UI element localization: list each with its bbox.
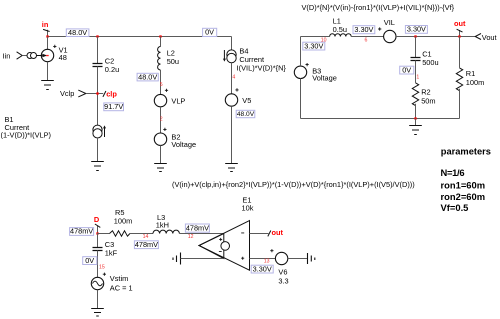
wire C2 to clp to B1 bbox=[97, 67, 99, 126]
svg-text:Vf=0.5: Vf=0.5 bbox=[441, 202, 469, 213]
svg-text:500u: 500u bbox=[422, 58, 438, 67]
voltage label box 3.30V (left of VIL) bbox=[353, 25, 375, 34]
voltage source VIL bbox=[378, 18, 396, 43]
svg-text:10k: 10k bbox=[242, 203, 254, 212]
voltage source V6 bbox=[270, 249, 288, 286]
svg-text:I(VIL)*V(D)*{N}: I(VIL)*V(D)*{N} bbox=[237, 63, 287, 72]
svg-text:3.30V: 3.30V bbox=[304, 41, 323, 50]
svg-text:100m: 100m bbox=[466, 78, 485, 87]
wire L2 top bbox=[160, 37, 162, 47]
wire ground stub bbox=[415, 119, 417, 126]
inductor L3 bbox=[153, 213, 179, 233]
junction L2 top bbox=[159, 35, 161, 37]
wire bottom rail right circuit bbox=[301, 118, 460, 120]
svg-text:3.30V: 3.30V bbox=[354, 25, 373, 34]
op-amp E1 (VCVS) bbox=[199, 196, 254, 271]
ground under rail bbox=[409, 126, 422, 135]
svg-text:0V: 0V bbox=[402, 65, 411, 74]
svg-text:50m: 50m bbox=[421, 97, 435, 106]
current source B1 bbox=[1, 115, 107, 140]
wire C2 top bbox=[97, 37, 99, 64]
svg-text:48.0V: 48.0V bbox=[138, 72, 157, 81]
wire in stub bbox=[47, 30, 49, 37]
voltage label box 478mV (E1 in) bbox=[185, 223, 209, 232]
wire B3 top segment bbox=[301, 36, 330, 38]
wire R5 to L3 bbox=[130, 233, 153, 235]
node D bbox=[94, 215, 100, 234]
svg-text:0.5u: 0.5u bbox=[333, 25, 347, 34]
voltage label box 3.30V (E1) bbox=[251, 264, 273, 273]
voltage source VLP bbox=[154, 89, 185, 107]
svg-text:4: 4 bbox=[232, 75, 235, 81]
svg-text:V5: V5 bbox=[242, 96, 251, 105]
capacitor C2 bbox=[93, 57, 120, 74]
svg-text:V6: V6 bbox=[278, 268, 287, 277]
wire D to R5 bbox=[98, 233, 110, 235]
svg-text:VIL: VIL bbox=[384, 18, 395, 27]
svg-text:91.7V: 91.7V bbox=[104, 102, 123, 111]
svg-text:Vclp: Vclp bbox=[60, 89, 74, 98]
svg-text:1kF: 1kF bbox=[105, 249, 118, 258]
resistor R2 bbox=[412, 83, 435, 106]
voltage label box 91.7V bbox=[104, 102, 124, 111]
svg-text:R1: R1 bbox=[466, 69, 475, 78]
junction rail-ground bbox=[414, 117, 416, 119]
wire B3 left side bbox=[300, 37, 302, 67]
svg-text:478mV: 478mV bbox=[70, 227, 93, 236]
svg-text:AC = 1: AC = 1 bbox=[110, 284, 133, 293]
svg-text:Voltage: Voltage bbox=[312, 74, 337, 83]
resistor R5 bbox=[110, 208, 133, 236]
wire V1 top bbox=[47, 37, 49, 50]
wire B1 to ground bbox=[97, 138, 99, 162]
svg-text:Voltage: Voltage bbox=[171, 140, 196, 149]
svg-text:12: 12 bbox=[188, 234, 194, 240]
voltage label box 0V (C3) bbox=[83, 256, 97, 265]
svg-text:parameters: parameters bbox=[441, 147, 491, 157]
voltage label box 3.30V (right of VIL) bbox=[405, 25, 427, 34]
svg-text:1: 1 bbox=[416, 75, 419, 81]
wire L1 to VIL bbox=[351, 36, 383, 38]
svg-text:Iin: Iin bbox=[3, 52, 11, 61]
wire C3 to Vstim bbox=[97, 251, 99, 278]
probe Vclp bbox=[60, 89, 98, 98]
svg-text:5: 5 bbox=[160, 82, 163, 88]
svg-text:out: out bbox=[454, 19, 466, 28]
svg-text:(V(in)+V(clp,in)+{ron2}*I(VLP): (V(in)+V(clp,in)+{ron2}*I(VLP))*(1-V(D))… bbox=[172, 180, 415, 189]
voltage label box 48.0V (L2) bbox=[137, 72, 158, 81]
svg-text:N=1/6: N=1/6 bbox=[441, 167, 465, 178]
wire B4 to V5 bbox=[231, 63, 233, 94]
voltage label box 3.30V (B3 corner) bbox=[303, 41, 325, 50]
svg-text:3.30V: 3.30V bbox=[407, 25, 426, 34]
svg-text:3.3: 3.3 bbox=[278, 277, 288, 286]
wire E1 plus out to V6 bbox=[250, 258, 276, 260]
ground under Vstim bbox=[91, 309, 104, 317]
wire B4 drop bbox=[231, 37, 233, 50]
junction clp bbox=[96, 92, 98, 94]
svg-text:Vout: Vout bbox=[482, 33, 497, 42]
capacitor C3 bbox=[93, 240, 118, 258]
wire D to C3 bbox=[97, 234, 99, 248]
wire C1 to R2 bbox=[415, 61, 417, 83]
wire C1 drop bbox=[415, 37, 417, 58]
voltage source B2 bbox=[154, 128, 196, 149]
voltage source B3 bbox=[294, 63, 337, 83]
wire Vstim to ground bbox=[97, 290, 99, 309]
wire L3 to E1 bbox=[179, 233, 223, 235]
probe Vout bbox=[475, 33, 496, 42]
ground under V5 bbox=[225, 164, 238, 172]
junction C2 top bbox=[96, 35, 98, 37]
inductor L1 bbox=[330, 17, 352, 37]
node out (top) bbox=[454, 19, 466, 37]
svg-text:VLP: VLP bbox=[171, 96, 185, 105]
svg-text:clp: clp bbox=[106, 89, 117, 98]
wire R1 top bbox=[459, 37, 461, 68]
wire E1 out bbox=[250, 233, 269, 235]
svg-text:Vstim: Vstim bbox=[110, 274, 128, 283]
svg-text:2: 2 bbox=[160, 117, 163, 123]
svg-text:0V: 0V bbox=[205, 28, 214, 37]
voltage label box 48.0V (in rail) bbox=[66, 28, 89, 37]
svg-text:6: 6 bbox=[365, 37, 368, 43]
voltage label box 48.0V (V5) bbox=[236, 110, 255, 118]
voltage source V1 bbox=[41, 45, 67, 62]
svg-text:50u: 50u bbox=[167, 57, 179, 66]
svg-text:ron1=60m: ron1=60m bbox=[441, 179, 486, 190]
svg-text:(1-V(D))*I(VLP): (1-V(D))*I(VLP) bbox=[1, 131, 52, 140]
ground under B1 bbox=[91, 162, 104, 171]
wire R2 to rail bbox=[415, 104, 417, 119]
svg-text:in: in bbox=[42, 20, 49, 29]
parameters text block bbox=[441, 147, 491, 214]
voltage label box 0V (top rail right) bbox=[203, 28, 217, 37]
ground right of V6 (sideways) bbox=[308, 253, 315, 264]
voltage source V5 bbox=[225, 88, 251, 106]
svg-text:R2: R2 bbox=[421, 88, 430, 97]
wire VLP to B2 bbox=[160, 107, 162, 133]
wire VIL to Vout bbox=[396, 36, 475, 38]
svg-text:478mV: 478mV bbox=[186, 223, 209, 232]
voltage label box 0V (C1-R2) bbox=[400, 65, 414, 74]
svg-text:3.30V: 3.30V bbox=[253, 264, 272, 273]
voltage source Vstim bbox=[91, 273, 132, 293]
junction D bbox=[96, 232, 98, 234]
svg-text:D: D bbox=[94, 215, 100, 224]
resistor R1 bbox=[456, 68, 484, 91]
wire L2 to VLP bbox=[160, 70, 162, 95]
voltage label box 478mV (D) bbox=[70, 227, 94, 236]
svg-text:15: 15 bbox=[99, 264, 105, 270]
wire B2 to ground bbox=[160, 145, 162, 163]
node in bbox=[42, 20, 50, 32]
junction in bbox=[46, 35, 48, 37]
svg-text:0.2u: 0.2u bbox=[105, 65, 119, 74]
svg-text:48.0V: 48.0V bbox=[68, 28, 87, 37]
node out (E1) bbox=[268, 228, 284, 237]
svg-text:0V: 0V bbox=[85, 256, 94, 265]
svg-text:48: 48 bbox=[59, 53, 67, 62]
svg-text:48.0V: 48.0V bbox=[237, 111, 255, 118]
wire V5 to ground bbox=[231, 106, 233, 163]
wire R1 bottom bbox=[459, 89, 461, 119]
svg-text:478mV: 478mV bbox=[135, 240, 158, 249]
voltage label box 478mV (R5-L3) bbox=[134, 240, 158, 249]
svg-text:out: out bbox=[272, 228, 284, 237]
ground E1 lower input (sideways) bbox=[173, 253, 181, 265]
ground under B2 bbox=[154, 164, 167, 172]
probe Iin bbox=[3, 52, 49, 61]
wire V1 to ground bbox=[47, 62, 49, 81]
svg-text:1kH: 1kH bbox=[156, 220, 169, 229]
node clp bbox=[98, 89, 118, 98]
junction out bbox=[458, 35, 460, 37]
wire V6 to ground bbox=[288, 258, 308, 260]
wire B3 to bottom rail bbox=[300, 79, 302, 119]
svg-text:V(D)*{N}*(V(in)-{ron1}*(I(VLP): V(D)*{N}*(V(in)-{ron1}*(I(VLP)+I(VIL)*{N… bbox=[302, 3, 455, 12]
svg-text:100m: 100m bbox=[114, 217, 133, 226]
svg-text:ron2=60m: ron2=60m bbox=[441, 191, 486, 202]
wire ground to E1 minus input bbox=[181, 258, 224, 260]
junction C1 top bbox=[414, 35, 416, 37]
ground under V1 bbox=[41, 81, 54, 90]
wire top rail in to B4 bbox=[48, 36, 232, 38]
inductor L2 bbox=[158, 47, 179, 71]
capacitor C1 bbox=[411, 49, 439, 67]
current source B4 bbox=[223, 46, 287, 72]
